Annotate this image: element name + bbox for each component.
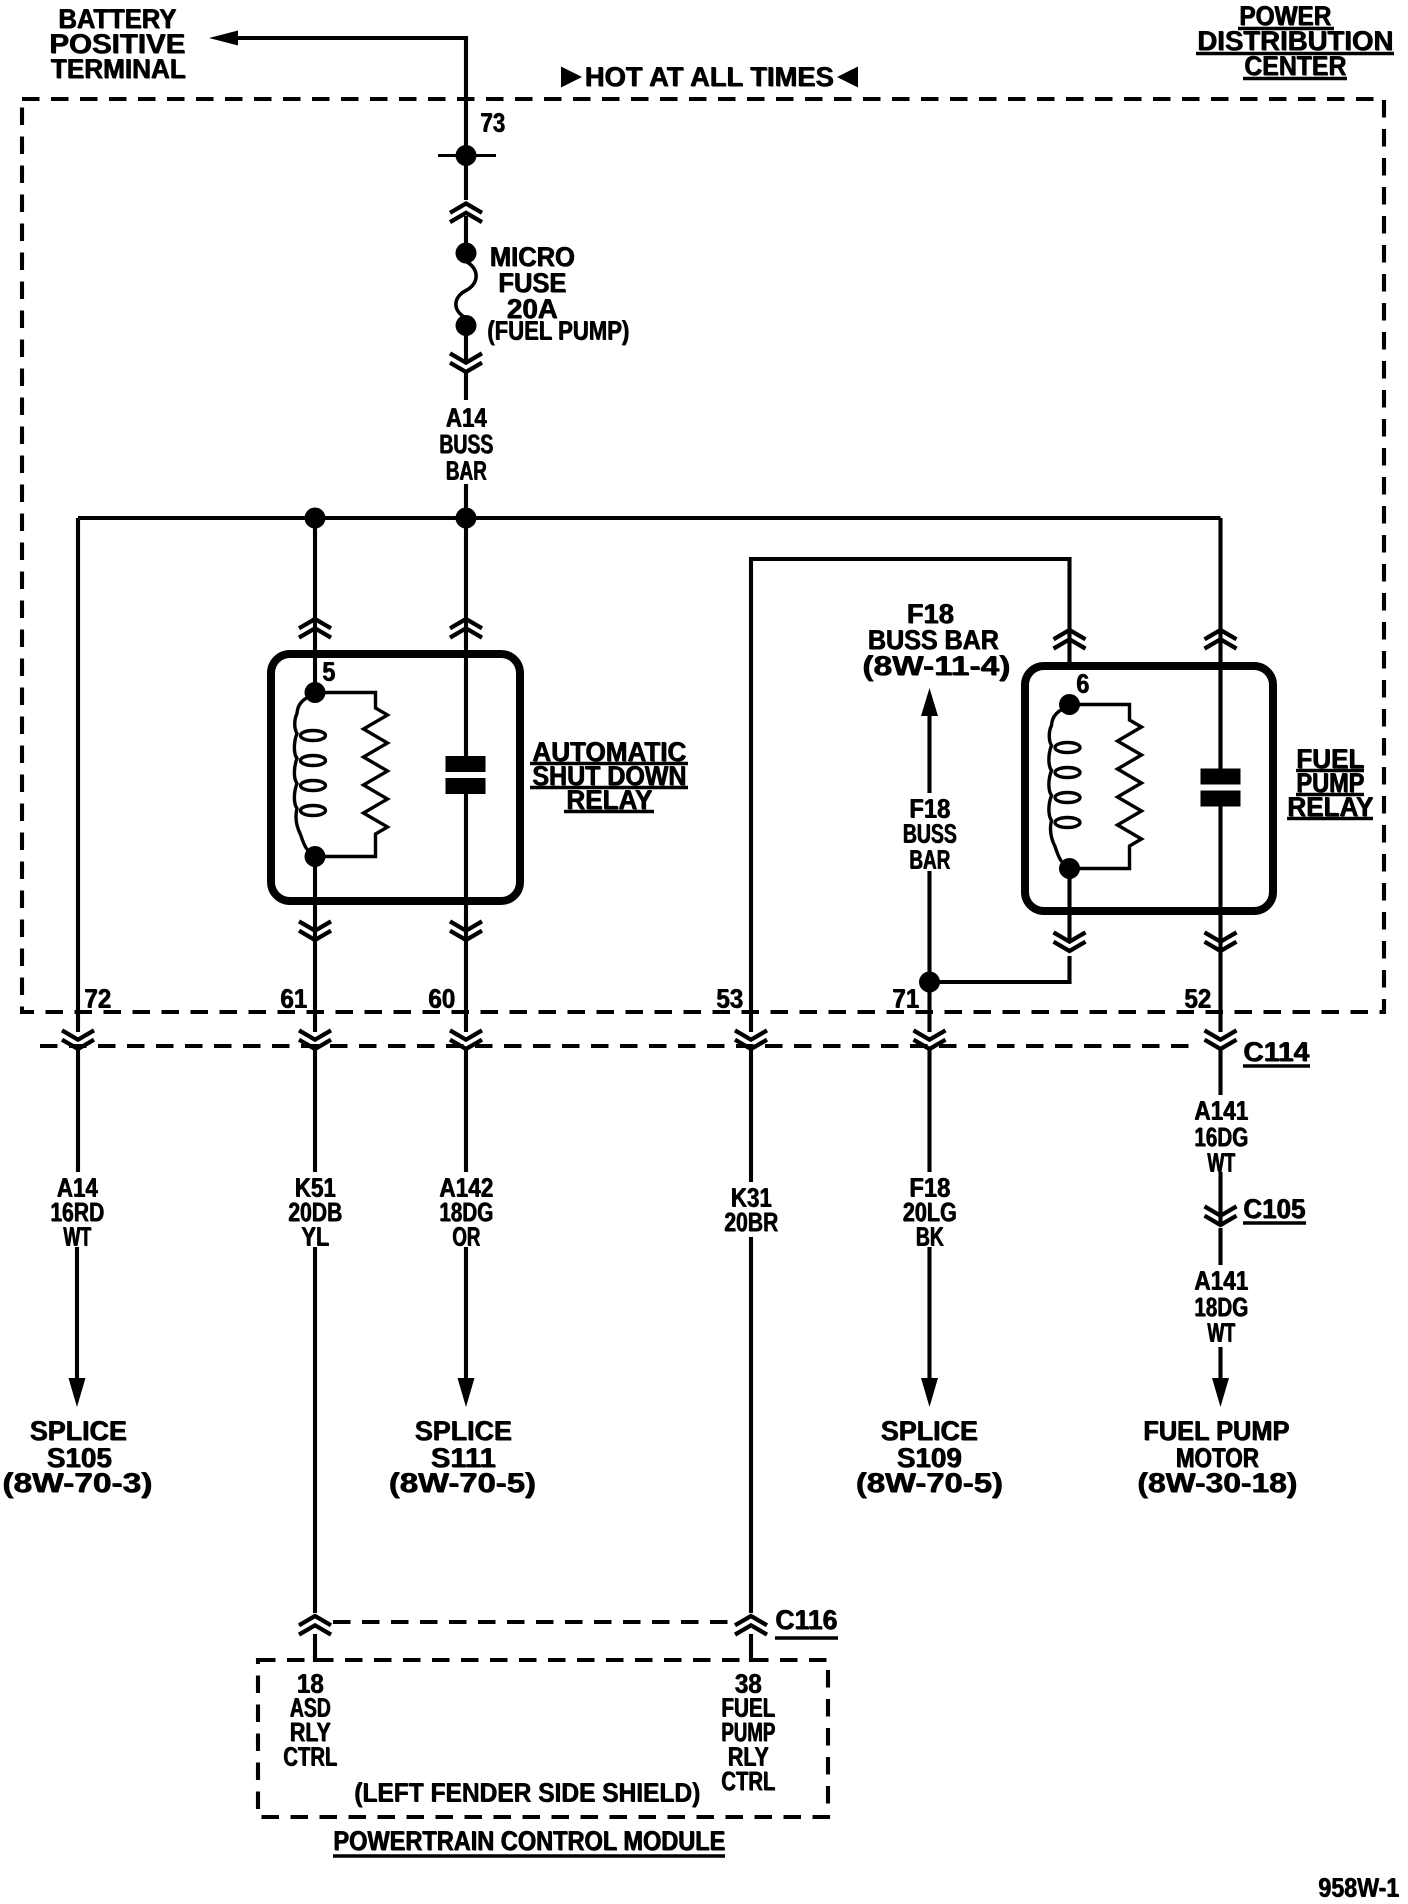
wire: bus to ASD relay coil pin 5 [313,518,317,692]
connector C105 chevrons [1205,1206,1237,1225]
label: POWERTRAIN CONTROL MODULE [333,1825,726,1856]
wire: ASD coil bottom out of box (circuit 61/K51) [313,857,317,1033]
svg-text:CTRL: CTRL [284,1742,338,1772]
wire: junction to fuel pump relay coil bottom [930,956,1070,982]
svg-text:53: 53 [717,984,744,1014]
svg-text:CTRL: CTRL [722,1767,776,1797]
wire: K31 control line horizontal (to pin 53) [751,559,1070,1032]
svg-text:20BR: 20BR [725,1208,779,1238]
connector chevrons above ASD relay coil [299,619,331,638]
svg-text:(8W-70-3): (8W-70-3) [3,1468,153,1499]
svg-text:72: 72 [85,984,112,1014]
svg-text:BAR: BAR [910,845,951,875]
FP relay contact bars [1201,769,1241,785]
pin 52 label [1184,984,1212,1014]
wire label F18 [909,1173,951,1203]
wire to splice S105 [75,1247,79,1381]
label: ASD RLY CTRL [290,1693,332,1723]
label: POWER (power distribution center line 1) [1239,0,1332,31]
wire label K31 [731,1183,773,1213]
label: POSITIVE [49,28,186,59]
pin 60 label [428,984,456,1014]
label: C116 [775,1604,838,1635]
connector chevrons above FP relay contact [1205,630,1237,649]
wire: FP coil bottom out of box [1067,869,1071,941]
wire below C114 at x=315 [313,1049,317,1172]
arrowhead to splice S111 [458,1378,475,1407]
label: SPLICE S105 [30,1415,128,1446]
connector C114 lower dashed line [40,1044,1190,1048]
svg-text:C114: C114 [1244,1037,1310,1068]
label: AUTOMATIC [532,736,687,767]
label: HOT AT ALL TIMES [585,61,835,92]
wire K51 to PCM [313,1247,317,1613]
terminal cross line at junction 73 [438,154,496,157]
pin 18 label [297,1669,325,1699]
label: F18 [909,794,951,824]
connector chevrons below fuse [450,353,482,372]
wire label K51 [295,1173,337,1203]
label: F18 (buss bar ref) [907,598,955,629]
arrowhead to splice S105 [69,1378,86,1407]
svg-text:HOT AT ALL TIMES: HOT AT ALL TIMES [585,62,834,93]
svg-text:TERMINAL: TERMINAL [51,54,186,85]
wire below C114 at x=78 [76,1049,80,1172]
label: 20A [507,293,559,324]
svg-text:(8W-30-18): (8W-30-18) [1138,1468,1298,1499]
connector chevrons above FP relay coil [1054,630,1086,649]
node: junction 73 on wire [456,145,477,166]
svg-text:(8W-70-5): (8W-70-5) [856,1468,1003,1499]
wire: F18 feed lower segment [927,871,931,1032]
label: SHUT DOWN [532,760,687,791]
label: A14 [446,403,488,433]
svg-text:WT: WT [1208,1318,1236,1348]
svg-text:POWERTRAIN CONTROL MODULE: POWERTRAIN CONTROL MODULE [334,1826,726,1857]
connector C114 chevrons at x=315 [299,1030,331,1049]
wire to splice S111 [464,1247,468,1381]
svg-text:C105: C105 [1244,1194,1306,1225]
wire: bus right drop to fuel pump relay contact [1218,518,1222,768]
relay: AUTOMATIC SHUT DOWN RELAY box [271,654,520,901]
svg-text:61: 61 [281,984,308,1014]
node: F18 junction 71 [919,972,940,993]
label: PUMP (FP relay) [1296,767,1365,798]
ASD relay coil winding [294,695,315,855]
wire: A14 buss bar horizontal [78,516,1221,520]
wire above C105 [1218,1172,1222,1224]
wire: FP contact lower (circuit 52/A141) [1218,804,1222,1032]
label: FUEL PUMP RLY CTRL [721,1693,776,1723]
arrowhead right-pointing before HOT [561,67,582,88]
svg-text:71: 71 [893,984,920,1014]
label: BUSS [439,429,494,459]
ASD coil bottom terminal [305,846,326,867]
label: RELAY (ASD) [566,784,653,815]
arrowhead left-pointing after TIMES [837,67,858,88]
wire label A141 16DG WT [1194,1096,1249,1126]
svg-text:BAR: BAR [446,456,487,486]
label: BUSS [903,819,958,849]
label: C114 [1243,1036,1310,1067]
connector chevrons above ASD relay contact [450,619,482,638]
pin 61 label [280,984,308,1014]
wire label A14 [57,1173,99,1203]
ASD relay contact bars [446,756,486,772]
label: (FUEL PUMP) [487,316,630,346]
pin 6 label [1076,669,1090,699]
svg-text:(8W-11-4): (8W-11-4) [863,651,1011,682]
FP relay coil suppression resistor [1070,705,1142,869]
svg-text:(LEFT FENDER SIDE SHIELD): (LEFT FENDER SIDE SHIELD) [355,1778,701,1808]
svg-text:73: 73 [481,108,506,138]
wire: F18 feed upper segment [927,714,931,793]
pin 71 label [892,984,920,1014]
label: FUEL PUMP MOTOR [1143,1415,1290,1446]
FP coil bottom terminal [1059,858,1080,879]
FP relay contact vertical wire [1218,666,1222,770]
label: C105 [1243,1193,1306,1224]
wire below C105 [1218,1228,1222,1265]
wire: ASD contact bottom out of box (circuit 60/A142) [464,792,468,1032]
arrowhead to battery positive terminal [209,31,238,46]
connector C116 chevrons at K51 [299,1616,331,1635]
pin 53 label [716,984,744,1014]
label: BAR [446,456,488,486]
pin 73 label [480,108,506,138]
label: TERMINAL [51,53,187,84]
wire: ASD contact column through relay [464,518,468,758]
node: bus junction to ASD coil [305,508,326,529]
svg-text:C116: C116 [776,1605,838,1636]
arrowhead to splice S109 [921,1378,938,1407]
label: MICRO [490,241,576,272]
wire label A142 [439,1173,494,1203]
arrowhead up to F18 buss bar [921,688,938,716]
fuse F20 micro fuse element [456,243,477,264]
connector C114 chevrons at x=466 [450,1030,482,1049]
wire label A141 18DG WT [1194,1266,1249,1296]
wire below C114 at x=751 [749,1049,753,1182]
wire into PCM pin 38 [749,1634,753,1662]
svg-text:52: 52 [1185,984,1212,1014]
label: RELAY (FP) [1287,791,1374,822]
wire: label to bus [464,484,468,518]
node: bus junction to ASD contact [456,508,477,529]
power distribution center dashed box [22,99,1384,1012]
svg-text:958W-1: 958W-1 [1319,1873,1400,1903]
connector C116 dashed line [333,1620,733,1624]
connector C114 chevrons at x=929.5 [914,1030,946,1049]
label: FUSE [498,267,567,298]
svg-text:(FUEL PUMP): (FUEL PUMP) [488,316,630,346]
label: SPLICE S111 [415,1415,513,1446]
svg-text:(8W-70-5): (8W-70-5) [389,1468,536,1499]
ASD relay coil suppression resistor [315,693,388,857]
wire: fuse to A14 buss bar label [464,372,468,400]
label: SPLICE S109 [881,1415,979,1446]
connector chevrons above fuse [450,204,482,223]
ASD coil top terminal [305,682,326,703]
pin 5 label [322,657,336,687]
svg-text:6: 6 [1077,669,1090,699]
wire into PCM pin 18 [313,1634,317,1662]
connector chevrons below ASD contact [450,921,482,940]
label: 958W-1 drawing number [1318,1873,1400,1903]
connector chevrons below FP contact [1205,932,1237,951]
wire: battery feed horizontal [237,38,466,200]
connector C114 chevrons at x=1220.5 [1205,1030,1237,1049]
wire below C114 at x=466 [464,1049,468,1172]
wire: into fuse [464,216,468,247]
connector chevrons below FP coil [1054,932,1086,951]
wire to fuel pump motor [1218,1347,1222,1381]
wire K31 to PCM [749,1237,753,1613]
label: (8W-11-4) [862,650,1011,681]
arrowhead to fuel pump motor [1212,1378,1229,1407]
connector C116 chevrons at K31 [735,1616,767,1635]
label: BATTERY (battery positive terminal line 1) [58,3,177,34]
label: CENTER [1244,50,1347,81]
connector chevrons below ASD coil [299,921,331,940]
pin 38 label [735,1669,763,1699]
label: DISTRIBUTION [1197,25,1394,56]
FP coil top terminal [1059,694,1080,715]
wire below C114 at x=1220.5 [1218,1049,1222,1095]
label: FUEL [1296,743,1365,774]
label: BUSS BAR [868,624,1000,655]
powertrain control module dashed box [258,1660,828,1817]
svg-text:60: 60 [429,984,456,1014]
connector C114 chevrons at x=78 [62,1030,94,1049]
wire to splice S109 [927,1247,931,1381]
relay: FUEL PUMP RELAY box [1025,666,1273,911]
label: BAR [909,845,951,875]
wire below C114 at x=929.5 [927,1049,931,1172]
FP relay coil winding [1049,707,1070,867]
label: (LEFT FENDER SIDE SHIELD) [354,1778,701,1808]
wire below fuse [464,334,468,360]
svg-text:5: 5 [323,657,336,687]
connector C114 chevrons at x=751 [735,1030,767,1049]
pin 72 label [84,984,112,1014]
wire: bus left drop (circuit 72 / A14) [76,518,80,1032]
